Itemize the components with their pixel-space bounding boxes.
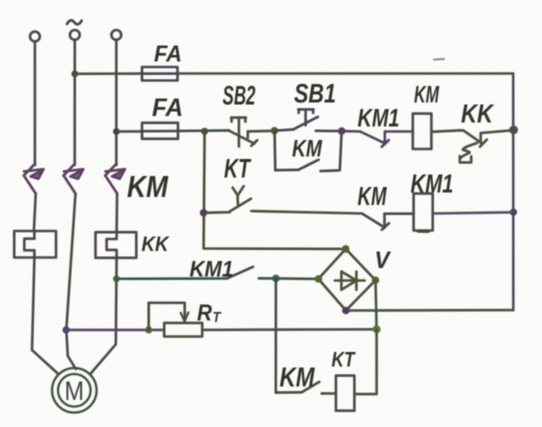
wire braking left (L2 to resistor RT) <box>66 329 164 332</box>
svg-text:KM1: KM1 <box>358 105 400 133</box>
node: L3 / control wire junction <box>113 128 120 135</box>
rectifier bridge V <box>318 249 375 311</box>
wire branch vertical (tee to KM braking contact) <box>274 278 277 392</box>
wire KM1 braking contact feed <box>116 277 227 280</box>
wire bottom right rail <box>346 309 513 312</box>
wire control feed (phase L2 to fuse FA top) <box>75 72 142 75</box>
node: KK / right edge <box>509 125 518 134</box>
node: KT branch tap <box>201 128 208 135</box>
svg-text:KK: KK <box>461 99 495 129</box>
node: L2 / control feed junction <box>71 70 78 77</box>
fuse FA second <box>142 123 178 139</box>
latch contact KM (self-hold, parallel SB1) <box>275 132 342 171</box>
wire phase L3 lower <box>91 258 117 374</box>
wire phase L1 upper <box>34 42 37 165</box>
contact KM NC (in KM1 coil branch) <box>362 214 414 230</box>
contactor main contact KM, phase L1 <box>24 164 44 194</box>
artifact dash near rectifier <box>418 230 429 233</box>
node: KT contact tap <box>200 209 208 217</box>
svg-text:FA: FA <box>154 41 182 67</box>
contactor main contact KM, phase L2 <box>63 164 83 194</box>
wire control line (L3 tap to fuse FA2) <box>116 130 142 133</box>
wire KM1 coil to right edge <box>433 212 514 213</box>
node: rectifier right vertex <box>372 276 380 284</box>
wire phase L2 to motor <box>66 194 76 370</box>
resistor RT with wiper <box>149 303 203 337</box>
node: L3 / KM1 braking wire junction <box>113 275 120 282</box>
coil KM1 <box>414 194 433 231</box>
svg-text:KT: KT <box>224 154 252 184</box>
node: braking wire / KT coil branch <box>373 325 381 333</box>
wire phase L1 to motor <box>32 258 58 375</box>
svg-text:M: M <box>65 376 85 406</box>
wire rectifier right vertex down <box>376 280 377 329</box>
terminal L1 <box>30 32 40 42</box>
node: rectifier bottom vertex <box>342 307 350 315</box>
contactor main contact KM, phase L3 <box>105 164 125 194</box>
svg-text:KM: KM <box>127 169 169 204</box>
thermal contact KK <box>459 130 514 162</box>
node: rectifier top vertex <box>342 245 350 253</box>
svg-text:FA: FA <box>152 94 183 122</box>
svg-text:SB1: SB1 <box>294 79 336 109</box>
node: RT bypass tap <box>145 326 152 333</box>
wire KM coil to KK contact <box>431 130 459 131</box>
wire phase L3 upper <box>115 41 118 166</box>
wire tee to rectifier left vertex <box>276 277 319 280</box>
coil KM <box>413 114 432 149</box>
wire phase L1 mid <box>34 194 36 232</box>
thermal element KK, phase L3 <box>96 232 137 258</box>
node: SB2 / SB1 junction <box>271 127 279 135</box>
svg-text:V: V <box>375 247 392 274</box>
contact KM1 NC (interlock) <box>342 131 413 147</box>
svg-text:KM: KM <box>358 181 388 211</box>
pushbutton SB2 (NC stop) <box>229 118 274 147</box>
fuse FA top <box>142 67 178 81</box>
svg-text:KK: KK <box>142 233 171 256</box>
artifact dash top right <box>434 58 444 61</box>
pushbutton SB1 (NO start) <box>274 109 341 131</box>
svg-text:R: R <box>197 300 212 326</box>
node: branch tee <box>272 275 280 283</box>
svg-text:KM: KM <box>280 362 316 393</box>
wire phase L3 mid <box>115 194 118 233</box>
node: KM1 coil / right edge <box>510 209 517 216</box>
coil KT <box>336 376 355 411</box>
wire right edge <box>512 74 515 311</box>
wire fuse FA2 to SB2 <box>178 129 229 132</box>
wire braking right (RT to KT branch) <box>202 328 376 331</box>
svg-text:KM: KM <box>414 82 440 109</box>
thermal element KK, phase L1 <box>14 231 56 258</box>
node: L2 / braking wire junction <box>63 326 70 333</box>
contact KM1 NO (braking) <box>227 267 276 279</box>
wire phase L2 upper <box>73 41 76 166</box>
svg-text:SB2: SB2 <box>223 81 256 111</box>
svg-text:KM1: KM1 <box>190 257 234 282</box>
terminal L3 <box>111 30 121 40</box>
AC source tilde <box>67 20 82 24</box>
node: rectifier left vertex <box>315 275 323 283</box>
terminal L2 <box>70 30 80 40</box>
wire top rail to right edge <box>178 72 514 75</box>
contact KM NO (braking, KT coil circuit) <box>276 382 336 394</box>
svg-text:KM: KM <box>292 136 323 163</box>
svg-text:KM1: KM1 <box>411 169 454 199</box>
time-delay contact KT <box>204 186 362 213</box>
node: SB1 / KM1 junction <box>338 127 346 135</box>
wire KT coil to braking wire <box>354 329 376 394</box>
svg-text:KT: KT <box>332 349 357 372</box>
motor M <box>52 368 97 413</box>
wire KT branch (down and to rectifier top) <box>204 132 346 249</box>
